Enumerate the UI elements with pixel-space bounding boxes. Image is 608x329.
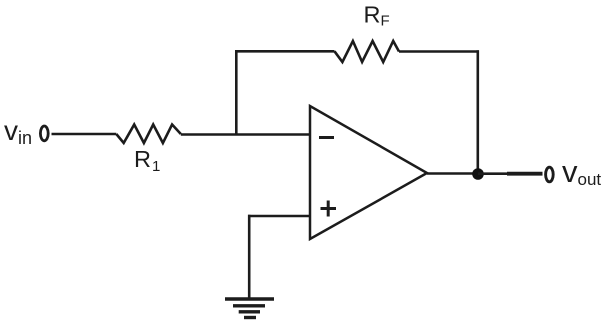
wire: top horizontal to RF (235, 50, 335, 53)
svg-text:vin: vin (4, 115, 32, 148)
wire: op-amp output to junction node (427, 172, 478, 175)
wire: RF to top-right corner (399, 50, 479, 53)
wire: junction to vout terminal (bold part) (507, 172, 543, 176)
wire: vin terminal to R1 (52, 133, 117, 136)
svg-text:RF: RF (364, 2, 390, 30)
wire: junction to vout terminal (thin part) (478, 172, 508, 175)
resistor R1 (116, 125, 181, 144)
node: output junction dot (472, 168, 484, 180)
wire: ground vertical (248, 215, 251, 299)
ground (225, 299, 274, 318)
input terminal vin (open circle) (40, 126, 48, 141)
op-amp minus sign (319, 136, 334, 139)
wire: non-inverting input to ground (horizontal) (248, 215, 310, 218)
op-amp plus sign (321, 201, 337, 217)
wire: feedback vertical at junction (235, 51, 238, 135)
wire: right vertical down to output node (476, 50, 479, 174)
wire: R1 to op-amp inverting input (181, 133, 310, 136)
svg-text:R1: R1 (134, 146, 160, 175)
svg-text:vout: vout (562, 154, 601, 189)
output terminal vout (open circle) (546, 167, 554, 182)
resistor RF (335, 41, 400, 62)
op-amp U1 (310, 106, 427, 239)
